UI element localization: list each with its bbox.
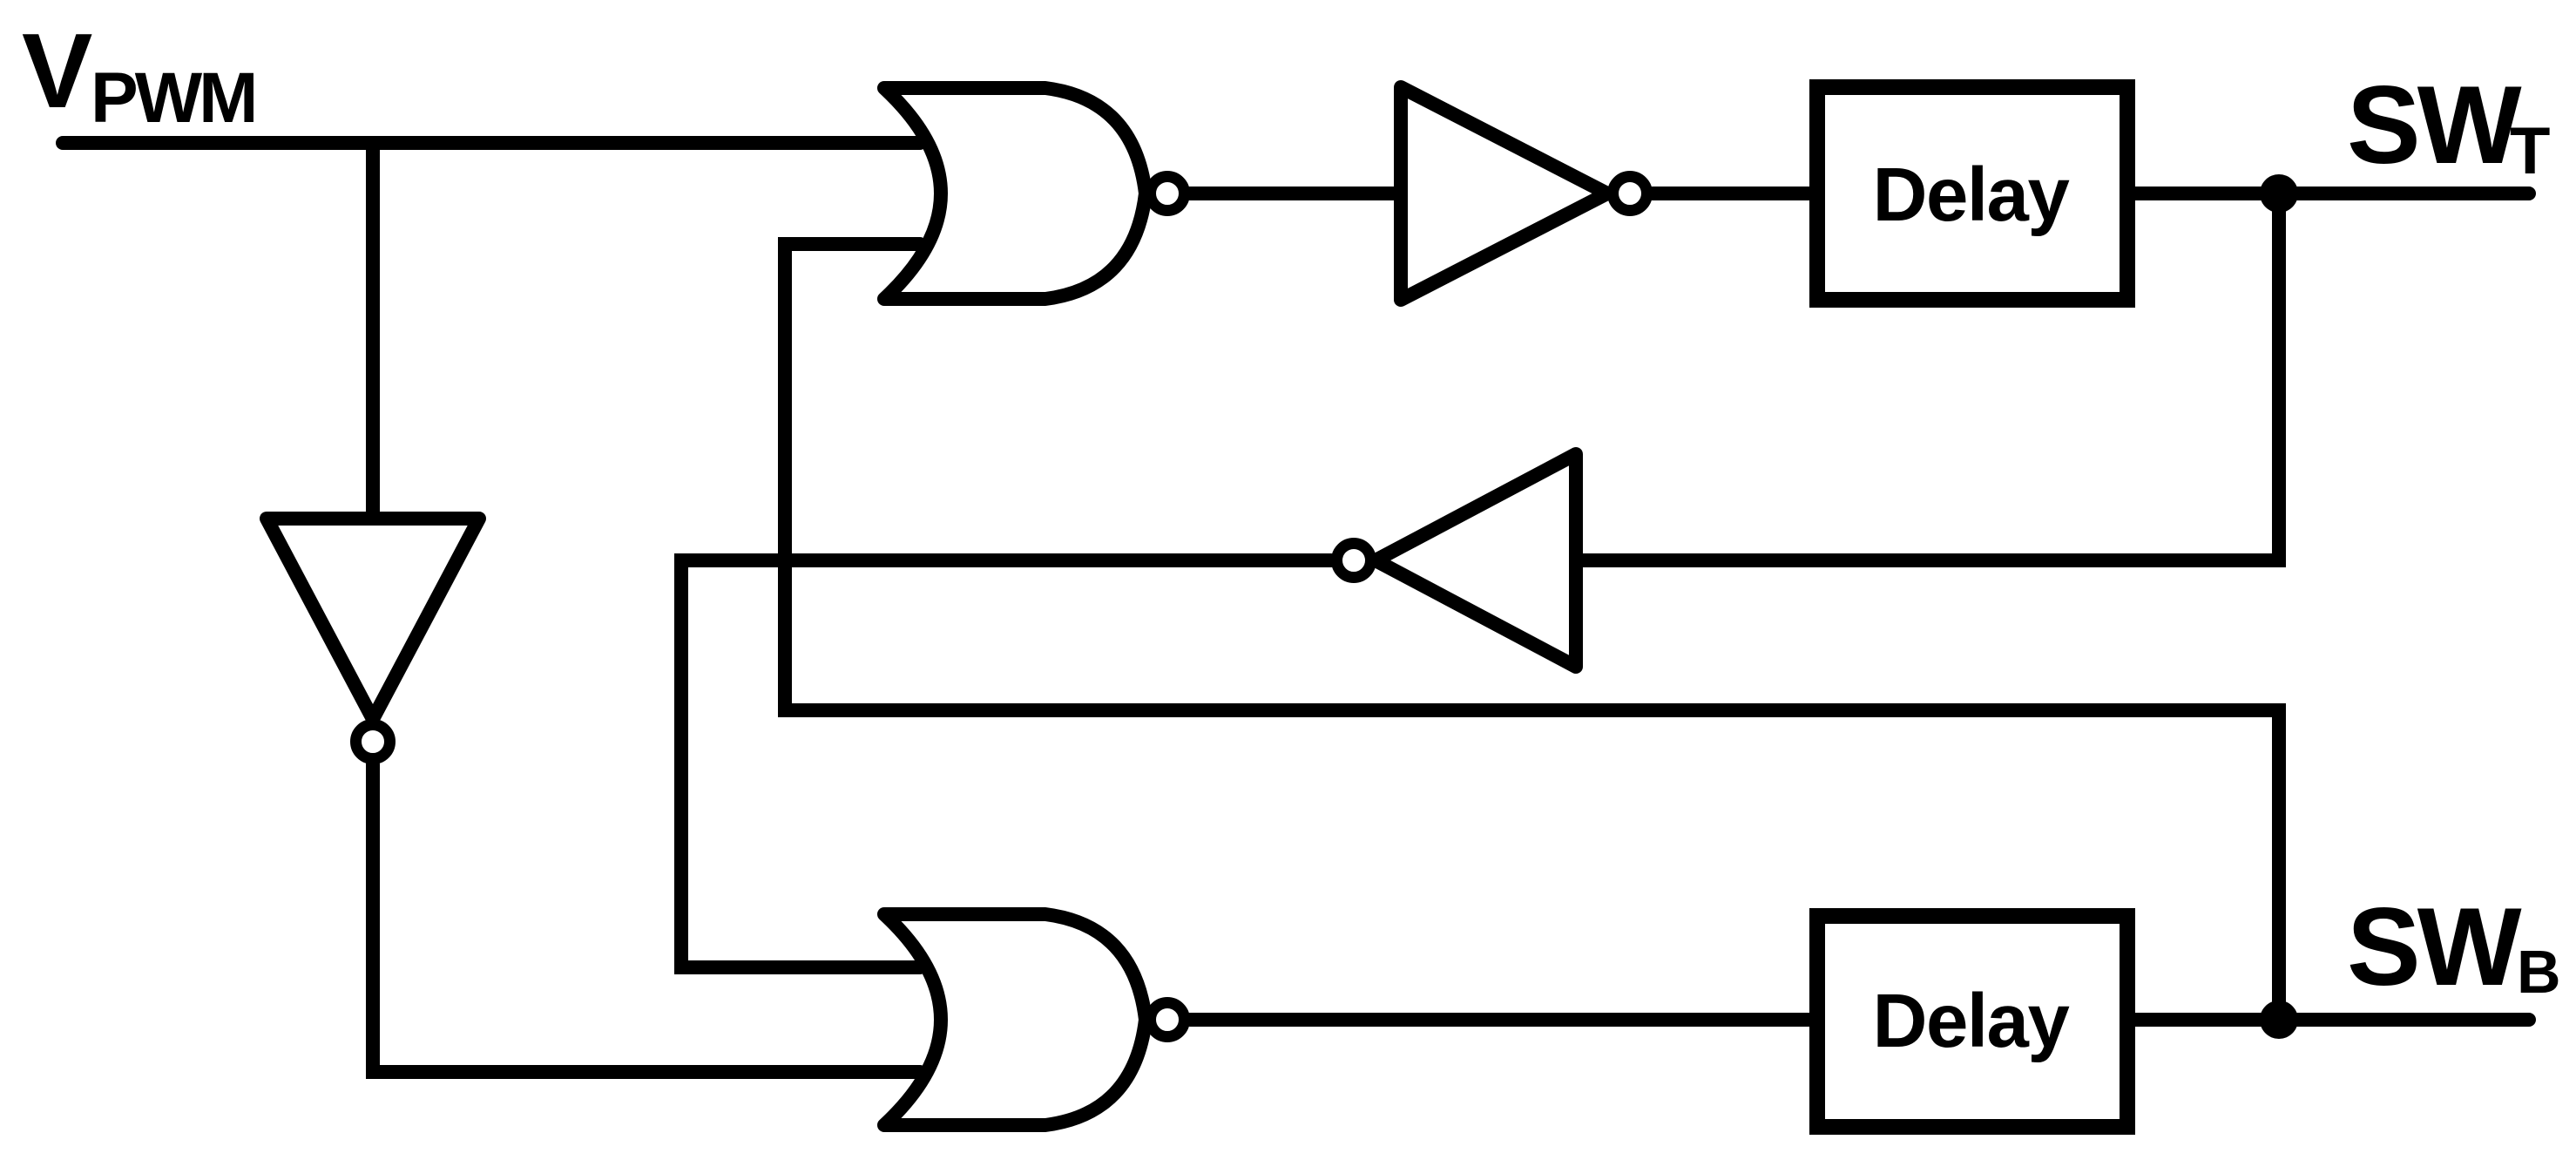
node SW_B junction dot xyxy=(2260,1001,2298,1039)
wire G1 output to buffer U1 xyxy=(1190,187,1401,200)
inverter U3 bubble xyxy=(1337,544,1371,578)
Delay block D1 xyxy=(1817,87,2127,300)
wire U2 output to NOR G2 lower input xyxy=(373,764,920,1072)
wire D2 output to SW_B xyxy=(2127,1013,2529,1027)
wire D1 output to SW_T xyxy=(2127,187,2529,200)
wire SW_T feedback down to inverter U3 input xyxy=(1576,193,2279,560)
svg-text:PWM: PWM xyxy=(91,58,254,138)
NOR G1 output bubble xyxy=(1151,177,1185,211)
NOR gate G2 xyxy=(884,914,1146,1125)
svg-text:T: T xyxy=(2510,114,2550,188)
node SW_T junction dot xyxy=(2260,174,2298,213)
svg-text:V: V xyxy=(22,11,92,130)
NOR gate G1 xyxy=(884,88,1146,299)
inverter U1 (right-pointing triangle) xyxy=(1401,87,1607,300)
svg-text:Delay: Delay xyxy=(1873,153,2070,237)
svg-text:B: B xyxy=(2517,938,2561,1006)
wire SW_B feedback up to NOR G1 lower input xyxy=(785,244,2279,1020)
inverter U2 (down-pointing triangle) xyxy=(267,519,479,719)
wire U1 output to Delay D1 xyxy=(1653,187,1817,200)
NOR G2 output bubble xyxy=(1151,1003,1185,1037)
wire V_PWM input horizontal xyxy=(63,136,920,150)
svg-text:Delay: Delay xyxy=(1873,979,2070,1063)
inverter U2 bubble xyxy=(356,725,390,759)
inverter U1 bubble xyxy=(1613,177,1647,211)
Delay block D2 xyxy=(1817,916,2127,1127)
svg-text:SW: SW xyxy=(2347,885,2522,1008)
wire V_PWM drop to inverter U2 xyxy=(366,143,380,519)
wire G2 output to Delay D2 xyxy=(1190,1013,1817,1027)
svg-text:SW: SW xyxy=(2347,63,2522,187)
wire U3 output to NOR G2 upper input xyxy=(681,560,1331,967)
inverter U3 (left-pointing triangle) xyxy=(1376,454,1576,667)
